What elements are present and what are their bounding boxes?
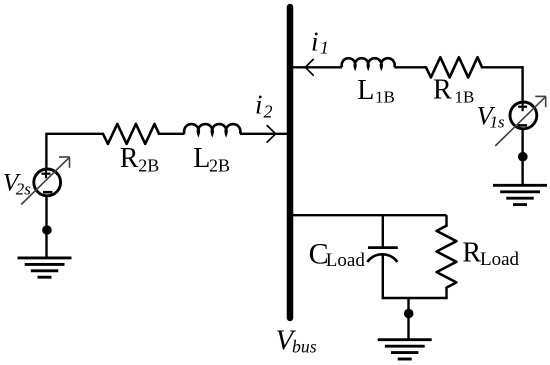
svg-text:R: R [120,143,139,174]
V1s minus [518,124,527,127]
V1s variable arrow [495,96,546,146]
svg-text:1s: 1s [490,113,506,132]
resistor R1B [426,57,482,77]
svg-text:i: i [311,27,319,57]
ground (V2s) [18,258,72,277]
svg-text:1: 1 [320,38,329,58]
label R1B [433,74,474,106]
label RLoad [462,237,519,270]
bus bar (node V_bus) [287,7,294,318]
label R2B [120,143,160,175]
ground (V1s) [493,185,547,204]
svg-text:2B: 2B [138,155,159,175]
svg-text:Load: Load [326,250,366,271]
V1s plus [518,102,527,111]
svg-text:R: R [433,74,452,105]
label i1 [311,27,329,58]
label L1B [357,75,395,107]
wire CLoad to bottom rail [382,255,384,298]
V2s minus [43,191,52,194]
wire R1B to corner and down to V1s [482,67,523,100]
source V1s circle [510,102,537,129]
wire V1s to ground [521,129,523,187]
junction dot below V1s [518,152,528,162]
label L2B [193,143,230,175]
svg-text:2: 2 [264,101,273,121]
label Vbus [276,325,317,357]
source V2s circle [34,169,61,196]
wire L1B to R1B [394,66,426,68]
V2s plus [42,169,51,178]
V2s variable arrow [21,157,69,205]
label V1s [477,101,506,132]
inductor L1B [342,58,395,67]
wire down to RLoad [445,215,447,226]
wire bottom rail to ground [407,298,409,340]
label V2s [3,167,32,198]
ground (load) [378,340,432,359]
wire L2B to bus [240,133,287,135]
capacitor CLoad curved plate [367,254,397,262]
capacitor CLoad top plate [368,246,398,249]
label i2 [255,90,273,122]
junction dot below V2s [42,225,52,235]
load rail from bus [293,214,447,216]
resistor RLoad [437,226,457,288]
svg-text:L: L [357,75,374,106]
inductor L2B [184,124,240,134]
svg-text:1B: 1B [455,88,475,107]
wire V2s corner to R2B [46,134,103,168]
svg-text:Load: Load [480,249,520,270]
label CLoad [309,238,366,271]
junction dot below load [404,309,414,319]
svg-text:i: i [255,90,263,120]
resistor R2B [103,124,159,144]
wire V2s to ground [45,196,47,259]
current arrow i1 [305,59,313,76]
svg-text:1B: 1B [375,88,395,107]
svg-text:L: L [193,143,210,174]
wire R2B to L2B [159,133,185,135]
wire bus to L1B [293,66,342,68]
bottom rail of load [382,297,448,299]
wire down to CLoad [382,215,384,247]
svg-text:R: R [462,237,481,268]
current arrow i2 [267,125,276,142]
svg-text:bus: bus [292,336,317,356]
svg-text:2B: 2B [209,155,230,175]
svg-text:2s: 2s [16,180,31,199]
wire RLoad to bottom rail [445,288,447,298]
